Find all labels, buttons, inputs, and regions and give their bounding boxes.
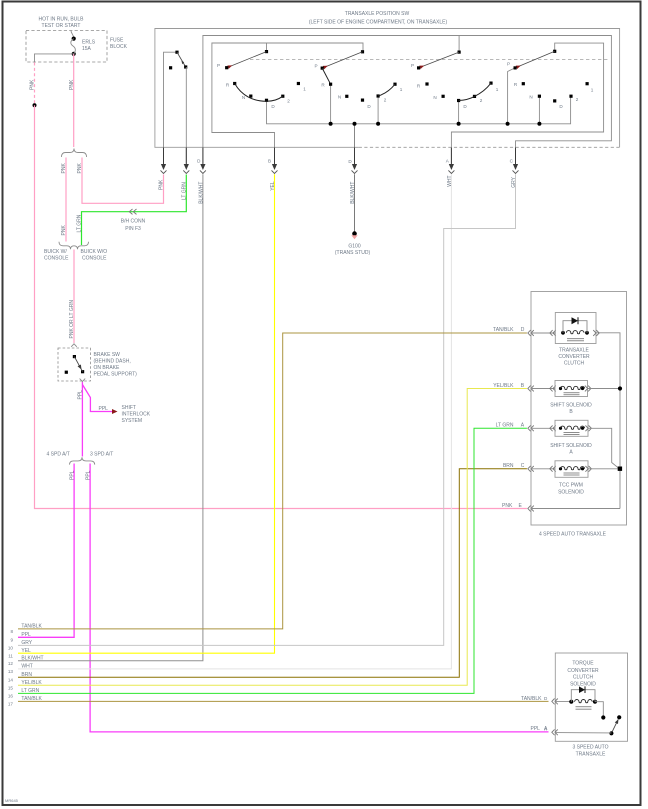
net wire to WHT (bank 4 common) <box>451 43 603 163</box>
bank 1 terminal R <box>233 82 236 85</box>
riser bank3 D <box>458 101 460 124</box>
wire 16 LT GRN to shift solenoid A <box>18 428 527 693</box>
svg-text:N: N <box>433 95 436 100</box>
bank 4 terminal P <box>514 66 517 69</box>
svg-text:N: N <box>242 95 245 100</box>
svg-text:TRANSAXLE POSITION SW: TRANSAXLE POSITION SW <box>345 11 410 17</box>
3 speed auto transaxle box <box>555 653 627 741</box>
blade arrowhead <box>615 718 620 724</box>
wire 14 BRN to TCC PWM solenoid <box>18 469 527 678</box>
bank 4 blade <box>515 51 555 68</box>
svg-text:LT GRN: LT GRN <box>182 182 188 200</box>
junction dot <box>506 122 510 126</box>
svg-text:PNK: PNK <box>30 79 36 90</box>
wire PPL branch to shift interlock <box>82 385 112 412</box>
svg-text:CONVERTER: CONVERTER <box>567 668 599 674</box>
svg-text:G100: G100 <box>348 244 360 250</box>
wire YEL to list 11 <box>18 174 275 653</box>
svg-text:TEST OR START: TEST OR START <box>42 23 81 29</box>
svg-text:3 SPEED AUTO: 3 SPEED AUTO <box>572 745 608 751</box>
diode branch <box>571 690 579 702</box>
svg-text:PNK: PNK <box>159 179 165 190</box>
svg-text:(TRANS STUD): (TRANS STUD) <box>335 250 371 256</box>
svg-text:HOT IN RUN, BULB: HOT IN RUN, BULB <box>39 17 85 23</box>
brace BUICK W/ CONSOLE <box>59 242 89 250</box>
svg-text:BLK/WHT: BLK/WHT <box>198 182 204 204</box>
svg-text:2: 2 <box>384 98 387 103</box>
mechanical linkage dashed line <box>250 59 610 61</box>
switch outer box dashed bottom right <box>359 146 620 148</box>
svg-text:SHIFT: SHIFT <box>122 405 136 411</box>
TCC coil <box>566 331 584 334</box>
pivot tap bank3 <box>458 36 460 53</box>
bank 3 contact arc D-2-1 <box>459 83 491 100</box>
shift solenoid B component <box>555 381 588 397</box>
bank 1 terminal N <box>249 95 252 98</box>
wire box edge to TCC <box>531 332 555 334</box>
svg-text:1: 1 <box>496 87 499 92</box>
junction dot <box>457 122 461 126</box>
bank 4 terminal 1 <box>586 82 589 85</box>
TCC right chevrons <box>593 330 599 336</box>
svg-text:PPL: PPL <box>77 390 83 400</box>
net wire to YEL (banks 1-2 common) <box>212 43 363 164</box>
core bars <box>576 706 592 708</box>
svg-text:N: N <box>529 94 532 99</box>
wire solenoid B to bus <box>588 388 621 390</box>
svg-text:TRANSAXLE: TRANSAXLE <box>559 347 589 353</box>
junction dot <box>329 122 333 126</box>
svg-text:TAN/BLK: TAN/BLK <box>21 624 42 630</box>
arrow feed dark segments <box>163 148 165 165</box>
svg-text:TRANSAXLE: TRANSAXLE <box>576 752 606 758</box>
riser bank2 terminal 2 <box>377 96 379 124</box>
pilot switch open terminal <box>169 66 172 69</box>
wire GRY to list 10 <box>18 174 516 645</box>
bank 2 P-R link <box>322 68 330 84</box>
svg-text:SYSTEM: SYSTEM <box>122 418 143 424</box>
bank 2 terminal 1 <box>393 83 396 86</box>
TCC PWM solenoid component <box>555 461 588 478</box>
connector arrow PNK <box>161 164 166 170</box>
wire 17 TAN/BLK to 3 speed solenoid <box>18 700 549 702</box>
blade arrowhead <box>78 364 84 370</box>
bank 1 terminal P <box>225 66 228 69</box>
svg-text:2: 2 <box>576 97 579 102</box>
shift solenoid A component <box>555 420 588 436</box>
solenoid coil <box>569 700 573 704</box>
svg-text:(BEHIND DASH,: (BEHIND DASH, <box>94 359 131 365</box>
connector chevron into brake sw <box>71 344 77 347</box>
bank 1 terminal 2 <box>281 95 284 98</box>
bank 2 terminal R <box>329 83 332 86</box>
bank 4 terminal R <box>522 82 525 85</box>
wire PWM to bus <box>588 468 618 470</box>
wire LT GRN from switch <box>82 175 187 246</box>
bank 4 wiper red arrow <box>516 64 522 69</box>
junction dot <box>618 386 622 390</box>
svg-text:PNK: PNK <box>69 79 75 90</box>
riser bank4 P <box>508 68 515 124</box>
svg-text:WHT: WHT <box>447 175 453 186</box>
svg-text:P: P <box>411 63 414 68</box>
connector chevrons E <box>528 506 534 512</box>
svg-text:BLK/WHT: BLK/WHT <box>350 182 356 204</box>
pilot switch terminal top <box>175 51 178 54</box>
svg-text:GRY: GRY <box>511 176 517 187</box>
wire PNK console right <box>82 158 164 204</box>
connector chevron below brake sw <box>80 379 86 382</box>
bank 2 blade <box>322 52 362 68</box>
svg-text:BRN: BRN <box>21 672 32 678</box>
wire A to blade <box>555 732 611 734</box>
svg-text:CLUTCH: CLUTCH <box>573 675 594 681</box>
svg-text:LT GRN: LT GRN <box>77 214 83 232</box>
diode <box>579 686 585 693</box>
switch bank 4 pivot <box>553 50 556 53</box>
arrowhead to shift interlock <box>112 409 118 414</box>
wire 15 YEL/BLK to shift solenoid B <box>18 389 527 686</box>
connector chevrons A <box>528 425 534 431</box>
svg-text:10: 10 <box>8 646 14 651</box>
connector chevrons A <box>552 729 558 735</box>
wire PNK fuse output <box>73 54 75 147</box>
bank 1 terminal D <box>265 99 268 102</box>
svg-text:3 SPD A/T: 3 SPD A/T <box>90 451 113 457</box>
bus wire bottom of switch <box>267 96 571 124</box>
svg-text:8: 8 <box>10 629 13 634</box>
bank 4 terminal D <box>553 99 556 102</box>
svg-text:CONSOLE: CONSOLE <box>82 256 107 262</box>
TCC diode branch <box>563 321 572 333</box>
svg-text:TCC PWM: TCC PWM <box>559 483 583 489</box>
bank 3 terminal P <box>417 66 420 69</box>
4 speed auto transaxle box <box>531 292 627 526</box>
brace 4SPD/3SPD split <box>70 457 95 464</box>
switch bank 2 pivot <box>361 50 364 53</box>
svg-text:SOLENOID: SOLENOID <box>570 681 596 687</box>
svg-text:BRN: BRN <box>503 463 514 469</box>
svg-text:PNK: PNK <box>61 225 67 236</box>
svg-text:17: 17 <box>8 702 14 707</box>
bank 2 terminal P <box>321 67 324 70</box>
net wire to BLK/WHT and GRY (bank 3 common) <box>203 36 612 164</box>
bank 2 terminal N <box>345 95 348 98</box>
svg-text:13: 13 <box>8 669 14 674</box>
svg-text:CLUTCH: CLUTCH <box>564 361 585 367</box>
svg-text:B: B <box>268 158 271 163</box>
riser bank4 N <box>538 96 540 124</box>
bank 2 terminal D <box>361 99 364 102</box>
svg-text:C: C <box>521 463 525 469</box>
LT GRN drop wire <box>185 67 187 164</box>
svg-text:LT GRN: LT GRN <box>496 423 514 429</box>
wire PPL main vertical <box>81 382 83 457</box>
svg-text:15A: 15A <box>82 46 92 52</box>
svg-text:PPL: PPL <box>21 632 31 638</box>
svg-text:TAN/BLK: TAN/BLK <box>521 696 542 702</box>
junction square <box>618 467 622 471</box>
svg-text:B/H CONN: B/H CONN <box>121 219 146 225</box>
wire PPL 3spd <box>90 464 548 732</box>
svg-text:P: P <box>217 63 220 68</box>
connector chevrons C <box>528 466 534 472</box>
svg-text:D: D <box>521 327 525 333</box>
connector arrow BLK/WHT G100 with pin D <box>352 164 357 170</box>
svg-text:YEL/BLK: YEL/BLK <box>493 383 514 389</box>
wire PNK console left <box>65 158 67 242</box>
svg-text:SHIFT SOLENOID: SHIFT SOLENOID <box>550 443 592 449</box>
wire PNK dashed below fuse box <box>34 63 36 104</box>
bank 3 wiper red arrow <box>419 64 425 69</box>
svg-text:11: 11 <box>8 653 13 658</box>
wire PNK long left vertical <box>35 105 527 508</box>
svg-text:PNK OR LT GRN: PNK OR LT GRN <box>69 300 75 339</box>
junction dot <box>537 122 541 126</box>
svg-text:16: 16 <box>8 694 14 699</box>
switch blade dot <box>617 715 621 719</box>
svg-text:(LEFT SIDE OF ENGINE COMPARTME: (LEFT SIDE OF ENGINE COMPARTMENT, ON TRA… <box>309 20 448 26</box>
bank 3 terminal 2 <box>473 95 476 98</box>
pivot dot on A wire <box>609 731 613 735</box>
svg-text:1: 1 <box>591 87 594 92</box>
wire PPL 4spd <box>18 464 74 638</box>
wire solenoid A to bus <box>588 428 620 469</box>
bank 1 contact arc R-N-D-2 <box>235 84 283 102</box>
svg-text:PNK: PNK <box>61 163 67 174</box>
bank 4 terminal 2 <box>569 95 572 98</box>
svg-text:PNK: PNK <box>502 503 513 509</box>
svg-text:PPL: PPL <box>69 470 75 480</box>
svg-text:YEL: YEL <box>21 648 31 654</box>
connector B/H CONN PIN F3 chevrons <box>129 209 136 214</box>
connector arrow LT GRN <box>184 164 189 170</box>
svg-text:TAN/BLK: TAN/BLK <box>21 696 42 702</box>
riser G100 <box>354 124 356 164</box>
svg-text:SOLENOID: SOLENOID <box>558 489 584 495</box>
svg-text:WHT: WHT <box>21 664 32 670</box>
svg-text:INTERLOCK: INTERLOCK <box>122 412 151 418</box>
bank 3 terminal 1 <box>489 82 492 85</box>
ground G100 stud <box>352 231 357 236</box>
bank 3 terminal N <box>442 95 445 98</box>
svg-text:P: P <box>507 62 510 67</box>
svg-text:4 SPD A/T: 4 SPD A/T <box>47 451 70 457</box>
wire WHT to list 13 <box>18 174 451 669</box>
svg-text:9: 9 <box>10 637 13 642</box>
svg-text:FUSE: FUSE <box>110 38 124 44</box>
switch bank 3 pivot <box>458 51 461 54</box>
junction dot <box>376 122 380 126</box>
pivot tap bank1 <box>266 43 268 52</box>
svg-text:14: 14 <box>8 677 14 682</box>
svg-text:BUICK W/O: BUICK W/O <box>81 249 108 255</box>
wire feed into fuse <box>71 31 74 39</box>
svg-text:4 SPEED AUTO TRANSAXLE: 4 SPEED AUTO TRANSAXLE <box>539 532 607 538</box>
bank 3 terminal R <box>425 82 428 85</box>
connector chevrons D <box>552 699 558 705</box>
TCC core bars <box>567 338 584 340</box>
svg-text:CONSOLE: CONSOLE <box>44 256 69 262</box>
wire to coil <box>555 700 571 702</box>
transaxle converter clutch component <box>555 313 596 344</box>
svg-text:YEL/BLK: YEL/BLK <box>21 680 42 686</box>
switch blade <box>611 719 618 733</box>
connector chevrons D <box>528 330 534 336</box>
wire 8 TAN/BLK to converter clutch <box>18 333 527 629</box>
internal bus wire <box>596 333 620 509</box>
svg-text:SHIFT SOLENOID: SHIFT SOLENOID <box>550 402 592 408</box>
svg-text:MR645: MR645 <box>5 798 19 803</box>
junction dot <box>353 122 357 126</box>
bank 2 terminal 2 <box>377 94 380 97</box>
svg-text:PPL: PPL <box>531 726 541 732</box>
svg-text:15: 15 <box>8 685 14 690</box>
splice dot <box>33 103 37 107</box>
fuse block dashed box <box>26 31 107 63</box>
connector arrow YEL with pin B <box>272 164 277 170</box>
bank 1 wiper red arrow <box>227 64 233 69</box>
svg-text:N: N <box>338 95 341 100</box>
svg-text:ON BRAKE: ON BRAKE <box>94 365 121 371</box>
bank 2 contact arc 2-1 <box>378 84 395 96</box>
TCC diode <box>572 317 579 324</box>
svg-text:BLOCK: BLOCK <box>110 44 128 50</box>
svg-text:YEL: YEL <box>270 181 276 191</box>
pilot switch terminal out <box>184 65 187 68</box>
connector chevrons B <box>528 386 534 392</box>
svg-text:BUICK W/: BUICK W/ <box>44 249 67 255</box>
bank 4 terminal N <box>538 95 541 98</box>
svg-text:12: 12 <box>8 661 14 666</box>
riser bank2 R <box>330 84 332 124</box>
wire E to bus <box>531 508 620 510</box>
svg-text:PPL: PPL <box>99 406 109 412</box>
brake switch contacts <box>73 355 76 358</box>
svg-text:BLK/WHT: BLK/WHT <box>21 655 43 661</box>
svg-text:1: 1 <box>400 87 403 92</box>
connector arrow GRY with pin C <box>513 164 518 170</box>
wire PNK OR LT GRN <box>73 250 75 344</box>
switch bank 1 pivot <box>265 50 268 53</box>
wire BLK/WHT to G100 <box>354 174 356 231</box>
svg-text:2: 2 <box>287 99 290 104</box>
blade arrowhead <box>182 61 185 65</box>
brake switch dashed box <box>58 348 90 381</box>
svg-text:P: P <box>314 63 317 68</box>
switch outer box <box>155 29 620 148</box>
bank 3 blade <box>419 52 460 68</box>
svg-text:GRY: GRY <box>21 640 32 646</box>
svg-text:TAN/BLK: TAN/BLK <box>493 327 514 333</box>
svg-text:PPL: PPL <box>85 470 91 480</box>
connector arrow WHT with pin A <box>449 164 454 170</box>
svg-text:PIN F3: PIN F3 <box>125 226 141 232</box>
svg-text:LT GRN: LT GRN <box>21 688 39 694</box>
wire coil to switch contact <box>595 702 603 716</box>
bank 2 wiper red arrow <box>323 64 329 69</box>
brake switch blade <box>74 357 82 372</box>
bank 1 blade <box>227 52 267 68</box>
svg-text:2: 2 <box>480 98 483 103</box>
svg-text:BRAKE SW: BRAKE SW <box>94 352 121 358</box>
pilot switch feed wire <box>164 52 178 163</box>
wire from fuse to left branch <box>35 54 74 62</box>
svg-text:CONVERTER: CONVERTER <box>558 354 590 360</box>
svg-text:PEDAL SUPPORT): PEDAL SUPPORT) <box>94 372 138 378</box>
wire BLK/WHT to list 12 <box>18 174 203 661</box>
bank 3 terminal D <box>457 99 460 102</box>
pilot switch blade <box>177 52 186 67</box>
svg-text:ERLS: ERLS <box>82 40 96 46</box>
svg-text:TORQUE: TORQUE <box>572 661 594 667</box>
fuse ERLS 15A <box>72 37 76 41</box>
bank 1 terminal 1 <box>297 82 300 85</box>
connector arrow BLK/WHT with pin D <box>200 164 205 170</box>
svg-text:1: 1 <box>303 86 306 91</box>
brace split to two PNK <box>62 149 87 158</box>
contact dot <box>601 715 605 719</box>
